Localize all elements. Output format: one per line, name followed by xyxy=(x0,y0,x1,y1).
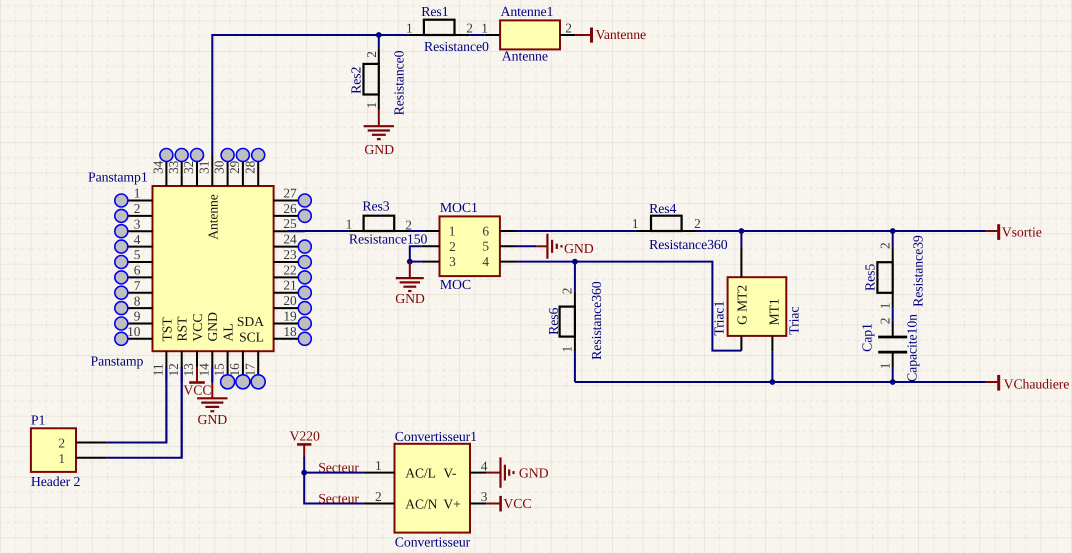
wire P1 pin 2 to IC pin 11 xyxy=(107,367,167,443)
wire Res6 to bottom bus xyxy=(574,352,576,382)
svg-text:Capacite10n: Capacite10n xyxy=(904,314,919,382)
svg-text:VCC: VCC xyxy=(190,314,205,342)
svg-text:P1: P1 xyxy=(31,413,46,428)
svg-text:2: 2 xyxy=(560,288,575,295)
svg-text:9: 9 xyxy=(134,309,141,324)
svg-text:Resistance39: Resistance39 xyxy=(910,235,925,307)
svg-text:13: 13 xyxy=(181,363,196,377)
junction below MOC1 pin 3 xyxy=(407,259,413,265)
Convertisseur1 pin numbers xyxy=(375,458,488,504)
svg-text:TST: TST xyxy=(159,317,174,342)
svg-text:21: 21 xyxy=(283,278,296,293)
svg-text:V-: V- xyxy=(443,465,456,480)
svg-text:2: 2 xyxy=(364,51,379,58)
svg-text:VChaudiere: VChaudiere xyxy=(1004,376,1070,391)
triac MT2 body xyxy=(728,277,787,336)
svg-text:2: 2 xyxy=(449,239,456,254)
svg-text:GND: GND xyxy=(205,312,220,342)
svg-text:2: 2 xyxy=(877,318,892,325)
svg-text:Vsortie: Vsortie xyxy=(1002,225,1042,240)
wire junction down to Res6 xyxy=(574,262,576,292)
ground GND below MOC1 xyxy=(396,262,424,291)
svg-text:14: 14 xyxy=(196,363,211,377)
svg-text:4: 4 xyxy=(134,232,141,247)
wire MOC1 pin 5 to ground xyxy=(517,245,536,247)
svg-text:Res3: Res3 xyxy=(362,199,389,214)
wire MOC1 pin 4 to triac gate xyxy=(517,262,742,351)
svg-text:22: 22 xyxy=(283,262,296,277)
converter Convertisseur1 body xyxy=(395,444,471,533)
svg-text:1: 1 xyxy=(406,20,413,35)
svg-text:Res4: Res4 xyxy=(649,201,676,216)
svg-text:1: 1 xyxy=(481,20,488,35)
wire MOC1 pin 6 to Res4 xyxy=(517,230,636,232)
P1 pin numbers xyxy=(58,435,65,466)
svg-text:28: 28 xyxy=(242,160,257,174)
svg-text:29: 29 xyxy=(227,160,242,174)
svg-text:MOC: MOC xyxy=(440,277,471,292)
svg-text:31: 31 xyxy=(196,161,211,174)
wire Res4 to port Vsortie xyxy=(697,230,986,232)
junction at Res5 column xyxy=(890,228,896,234)
svg-text:19: 19 xyxy=(283,309,297,324)
pin numbers Antenne1 xyxy=(481,20,572,35)
IC right pins 27-18 xyxy=(274,201,305,339)
junction at V220 xyxy=(301,470,307,476)
power port V220 xyxy=(297,444,311,456)
triac MT1 pin xyxy=(771,336,773,382)
pin numbers Res2 xyxy=(364,51,379,108)
svg-text:12: 12 xyxy=(166,363,181,376)
svg-text:25: 25 xyxy=(283,216,297,231)
MOC1 left pins 1,2,3 xyxy=(422,231,440,262)
svg-text:RST: RST xyxy=(175,316,190,342)
pin numbers Cap1 xyxy=(877,318,892,370)
svg-text:2: 2 xyxy=(565,20,572,35)
svg-text:Panstamp: Panstamp xyxy=(91,353,144,368)
svg-text:V220: V220 xyxy=(290,428,320,443)
IC pin names TST RST VCC GND AL (pins 11-15) xyxy=(159,312,235,342)
svg-text:27: 27 xyxy=(283,186,297,201)
svg-text:Secteur: Secteur xyxy=(318,491,359,506)
wire IC pin 14 to ground xyxy=(211,367,213,384)
wire Cap1 to bottom bus xyxy=(892,368,894,382)
svg-text:6: 6 xyxy=(134,263,141,278)
svg-text:24: 24 xyxy=(283,232,297,247)
IC top pin numbers 34-28 xyxy=(151,160,258,174)
Convertisseur1 right pins 4,3 xyxy=(470,473,486,504)
antenna Antenne1 xyxy=(485,20,576,49)
svg-text:3: 3 xyxy=(134,216,141,231)
svg-text:Antenne: Antenne xyxy=(502,48,548,63)
pin numbers Res3 xyxy=(346,217,412,233)
MOC1 right pins 6,5,4 xyxy=(500,231,517,262)
optocoupler MOC1 body xyxy=(440,216,500,276)
svg-text:AC/L: AC/L xyxy=(405,465,436,480)
triac gate pin xyxy=(740,336,742,351)
IC left pins 1-10 xyxy=(121,201,152,339)
svg-text:1: 1 xyxy=(346,217,353,232)
svg-text:1: 1 xyxy=(560,346,575,353)
resistor Res6 xyxy=(560,291,575,352)
IC bottom pins 11-17 xyxy=(166,351,258,382)
wire MOC1 pin 2 to ground riser xyxy=(410,246,422,261)
capacitor Cap1 xyxy=(878,321,907,368)
wire IC pin 11 down to P1 pin 2 xyxy=(165,367,167,443)
svg-text:Res1: Res1 xyxy=(421,4,448,19)
Convertisseur1 pin names xyxy=(405,465,460,511)
svg-text:5: 5 xyxy=(134,247,141,262)
power VCC at Convertisseur pin 3 xyxy=(486,496,502,512)
svg-text:4: 4 xyxy=(481,458,488,473)
svg-text:32: 32 xyxy=(181,161,196,174)
svg-text:Vantenne: Vantenne xyxy=(596,27,647,42)
wire to Convertisseur pin 2 xyxy=(304,473,364,504)
wire Res1 to Antenne1 xyxy=(470,34,485,36)
IC top pin terminals (circles) xyxy=(160,149,265,162)
junction at triac MT2 column xyxy=(739,228,745,234)
resistor Res5 xyxy=(877,247,892,308)
power VCC at IC pin 13 xyxy=(189,367,205,383)
wire Res5 to Cap1 xyxy=(892,308,894,321)
port Vantenne xyxy=(575,27,646,43)
pin numbers Res1 xyxy=(406,20,473,35)
svg-text:3: 3 xyxy=(449,254,456,269)
pin numbers Res5 xyxy=(877,242,892,309)
svg-text:8: 8 xyxy=(134,293,141,308)
resistor Res1 xyxy=(409,20,470,35)
svg-text:Resistance0: Resistance0 xyxy=(392,50,407,115)
IC U Panstamp1 body xyxy=(153,186,274,351)
svg-text:GND: GND xyxy=(519,466,549,481)
svg-text:34: 34 xyxy=(151,160,166,174)
svg-text:2: 2 xyxy=(877,242,892,249)
svg-text:23: 23 xyxy=(283,247,297,262)
svg-text:16: 16 xyxy=(227,363,242,377)
svg-text:2: 2 xyxy=(694,216,701,231)
svg-text:2: 2 xyxy=(58,435,65,450)
svg-text:1: 1 xyxy=(58,451,65,466)
IC top pins 34-28 xyxy=(166,155,258,186)
wire Res3 to MOC1 pin 1 xyxy=(410,230,425,232)
junction at Res6 top xyxy=(572,259,578,265)
ground GND at Convertisseur pin 4 (rotated) xyxy=(486,457,513,487)
wire IC pin 25 to Res3 xyxy=(288,230,348,232)
port Vsortie xyxy=(985,224,1042,240)
svg-text:Resistance0: Resistance0 xyxy=(424,39,489,54)
wire V220 to junction xyxy=(303,457,305,473)
svg-text:AC/N: AC/N xyxy=(405,497,437,512)
svg-text:Resistance150: Resistance150 xyxy=(349,232,428,247)
svg-text:Res6: Res6 xyxy=(546,308,561,335)
svg-text:2: 2 xyxy=(466,20,473,35)
ground GND at IC pin 14 xyxy=(197,383,227,411)
connector P1 body xyxy=(31,428,76,472)
wire to Convertisseur pin 1 xyxy=(304,472,364,474)
wire MOC1 pin 3 to ground riser xyxy=(410,261,422,263)
resistor Res4 xyxy=(636,216,697,231)
svg-text:3: 3 xyxy=(481,489,488,504)
P1 pins xyxy=(76,443,107,458)
svg-text:VCC: VCC xyxy=(503,496,531,511)
svg-text:Cap1: Cap1 xyxy=(859,323,874,352)
svg-text:Resistance360: Resistance360 xyxy=(649,237,728,252)
svg-text:GND: GND xyxy=(198,412,228,427)
svg-text:5: 5 xyxy=(482,239,489,254)
svg-text:2: 2 xyxy=(134,201,141,216)
svg-text:11: 11 xyxy=(151,364,166,377)
svg-text:15: 15 xyxy=(212,363,227,377)
svg-text:Res5: Res5 xyxy=(863,264,878,291)
resistor Res2 xyxy=(364,49,379,110)
svg-text:Convertisseur1: Convertisseur1 xyxy=(395,429,477,444)
IC bottom pin terminals (circles) pins 15,16,17 xyxy=(221,375,266,389)
wire junction down to Res2 xyxy=(378,35,380,49)
svg-text:Header 2: Header 2 xyxy=(31,474,81,489)
svg-text:V+: V+ xyxy=(443,497,460,512)
wire P1 pin 1 to IC pin 12 xyxy=(107,367,182,458)
svg-text:Antenne1: Antenne1 xyxy=(501,4,554,19)
svg-text:GND: GND xyxy=(364,142,394,157)
svg-text:Antenne: Antenne xyxy=(205,194,220,239)
svg-text:7: 7 xyxy=(134,278,141,293)
wire junction down to Res5 xyxy=(892,231,894,247)
MOC1 pin numbers xyxy=(449,223,490,269)
svg-text:6: 6 xyxy=(482,223,489,238)
svg-text:GND: GND xyxy=(564,241,594,256)
svg-text:1: 1 xyxy=(632,216,639,231)
svg-text:26: 26 xyxy=(283,201,297,216)
pin numbers Res6 xyxy=(560,288,575,353)
svg-text:1: 1 xyxy=(449,223,456,238)
svg-text:18: 18 xyxy=(283,324,297,339)
ground GND right of MOC1 (rotated) xyxy=(536,234,561,259)
svg-text:VCC: VCC xyxy=(183,383,211,398)
wire IC pin 12 down to P1 pin 1 xyxy=(181,367,183,458)
svg-text:Secteur: Secteur xyxy=(318,460,359,475)
triac MT2 top pin xyxy=(740,231,742,277)
svg-text:10: 10 xyxy=(127,324,141,339)
junction MT1 on bus xyxy=(770,379,776,385)
svg-text:Triac1: Triac1 xyxy=(712,301,727,336)
svg-text:17: 17 xyxy=(242,363,257,377)
wire from IC pin 31 up and across to Res1 xyxy=(212,34,408,155)
IC right pin terminals (circles) xyxy=(298,194,311,345)
junction Cap1 on bus xyxy=(890,379,896,385)
svg-text:SDA: SDA xyxy=(237,314,264,329)
resistor Res3 xyxy=(348,216,409,231)
svg-text:Convertisseur: Convertisseur xyxy=(395,534,471,549)
IC left pin numbers 1-10 xyxy=(127,186,141,339)
junction at Res2 top xyxy=(376,32,382,38)
svg-text:MOC1: MOC1 xyxy=(440,200,478,215)
svg-text:1: 1 xyxy=(364,102,379,109)
svg-text:Res2: Res2 xyxy=(348,67,363,94)
svg-text:MT1: MT1 xyxy=(766,298,781,325)
svg-text:Resistance360: Resistance360 xyxy=(589,281,604,360)
svg-text:20: 20 xyxy=(283,293,297,308)
IC right pin numbers 27-18 xyxy=(283,186,297,339)
svg-text:1: 1 xyxy=(877,363,892,370)
svg-text:30: 30 xyxy=(212,160,227,174)
svg-text:33: 33 xyxy=(166,160,181,174)
svg-text:1: 1 xyxy=(134,186,141,201)
svg-text:4: 4 xyxy=(482,254,489,269)
svg-text:1: 1 xyxy=(375,458,382,473)
svg-text:GND: GND xyxy=(395,291,425,306)
svg-text:AL: AL xyxy=(221,323,236,341)
Convertisseur1 left pins 1,2 xyxy=(364,473,395,504)
svg-text:Panstamp1: Panstamp1 xyxy=(88,170,148,185)
bottom bus wire to VChaudiere xyxy=(575,381,986,383)
svg-text:G MT2: G MT2 xyxy=(734,285,749,325)
port VChaudiere xyxy=(985,375,1069,391)
svg-text:Triac: Triac xyxy=(786,307,801,335)
svg-text:SCL: SCL xyxy=(239,329,264,344)
svg-text:1: 1 xyxy=(877,303,892,310)
IC bottom pin numbers 11-17 xyxy=(151,363,258,377)
pin numbers Res4 xyxy=(632,216,701,231)
ground GND below Res2 xyxy=(364,110,394,139)
svg-text:2: 2 xyxy=(375,489,382,504)
IC left pin terminals (circles) xyxy=(115,194,128,345)
